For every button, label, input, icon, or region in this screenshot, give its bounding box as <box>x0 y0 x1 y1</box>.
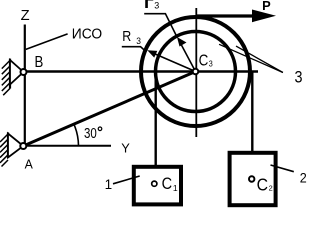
pulley 3 inner rim <box>156 32 236 112</box>
support A wall bar <box>7 132 9 157</box>
load 1 box <box>134 167 181 205</box>
svg-text:A: A <box>25 157 34 171</box>
rope 1 <box>154 72 156 167</box>
support B wall bar <box>9 59 11 89</box>
svg-text:2: 2 <box>300 170 307 186</box>
leader 2 <box>271 165 294 172</box>
support B triangle <box>10 60 24 85</box>
svg-text:Y: Y <box>121 142 130 156</box>
svg-text:3: 3 <box>154 0 159 10</box>
vertical centerline <box>195 8 197 137</box>
svg-text:2: 2 <box>269 184 273 193</box>
force P arrow <box>196 14 257 17</box>
svg-text:3: 3 <box>136 36 141 46</box>
leader line ИСО <box>26 34 68 50</box>
leader 3 to inner rim <box>219 44 283 72</box>
radius r3 arrow from center <box>179 40 196 72</box>
svg-text:1: 1 <box>105 177 113 192</box>
svg-text:B: B <box>35 54 44 71</box>
axis Y line <box>24 145 111 147</box>
load 2 box <box>230 153 276 205</box>
leader 3 to outer rim <box>236 46 283 72</box>
svg-text:Z: Z <box>21 7 30 24</box>
svg-text:R: R <box>122 28 131 45</box>
axis Z line <box>24 25 26 144</box>
support B hatching <box>2 60 10 95</box>
rod A-C3 <box>23 72 195 147</box>
leader r3 <box>144 14 176 35</box>
svg-text:30: 30 <box>84 126 97 142</box>
rope 2 <box>251 72 253 154</box>
pulley 3 outer rim <box>141 17 250 126</box>
svg-text:C: C <box>199 52 209 69</box>
svg-text:г: г <box>143 0 155 12</box>
center C2 marker <box>249 176 254 181</box>
pivot A <box>20 143 26 149</box>
svg-text:C: C <box>162 175 173 193</box>
radius R3 arrow from center <box>151 52 196 72</box>
leader 1 <box>113 176 140 184</box>
pivot B <box>21 69 27 75</box>
svg-text:P: P <box>262 0 271 13</box>
svg-text:C: C <box>257 175 268 195</box>
svg-text:3: 3 <box>209 60 213 69</box>
center C1 marker <box>152 181 157 186</box>
svg-text:1: 1 <box>173 183 178 193</box>
svg-text:3: 3 <box>295 68 303 86</box>
leader R3 <box>122 47 147 52</box>
pivot C3 <box>193 69 199 75</box>
rod B-C3 (horizontal centerline) <box>24 70 258 73</box>
svg-text:ИСО: ИСО <box>72 27 102 43</box>
support A hatching <box>0 134 8 167</box>
angle 30 arc <box>74 124 79 145</box>
support A triangle <box>8 134 23 158</box>
